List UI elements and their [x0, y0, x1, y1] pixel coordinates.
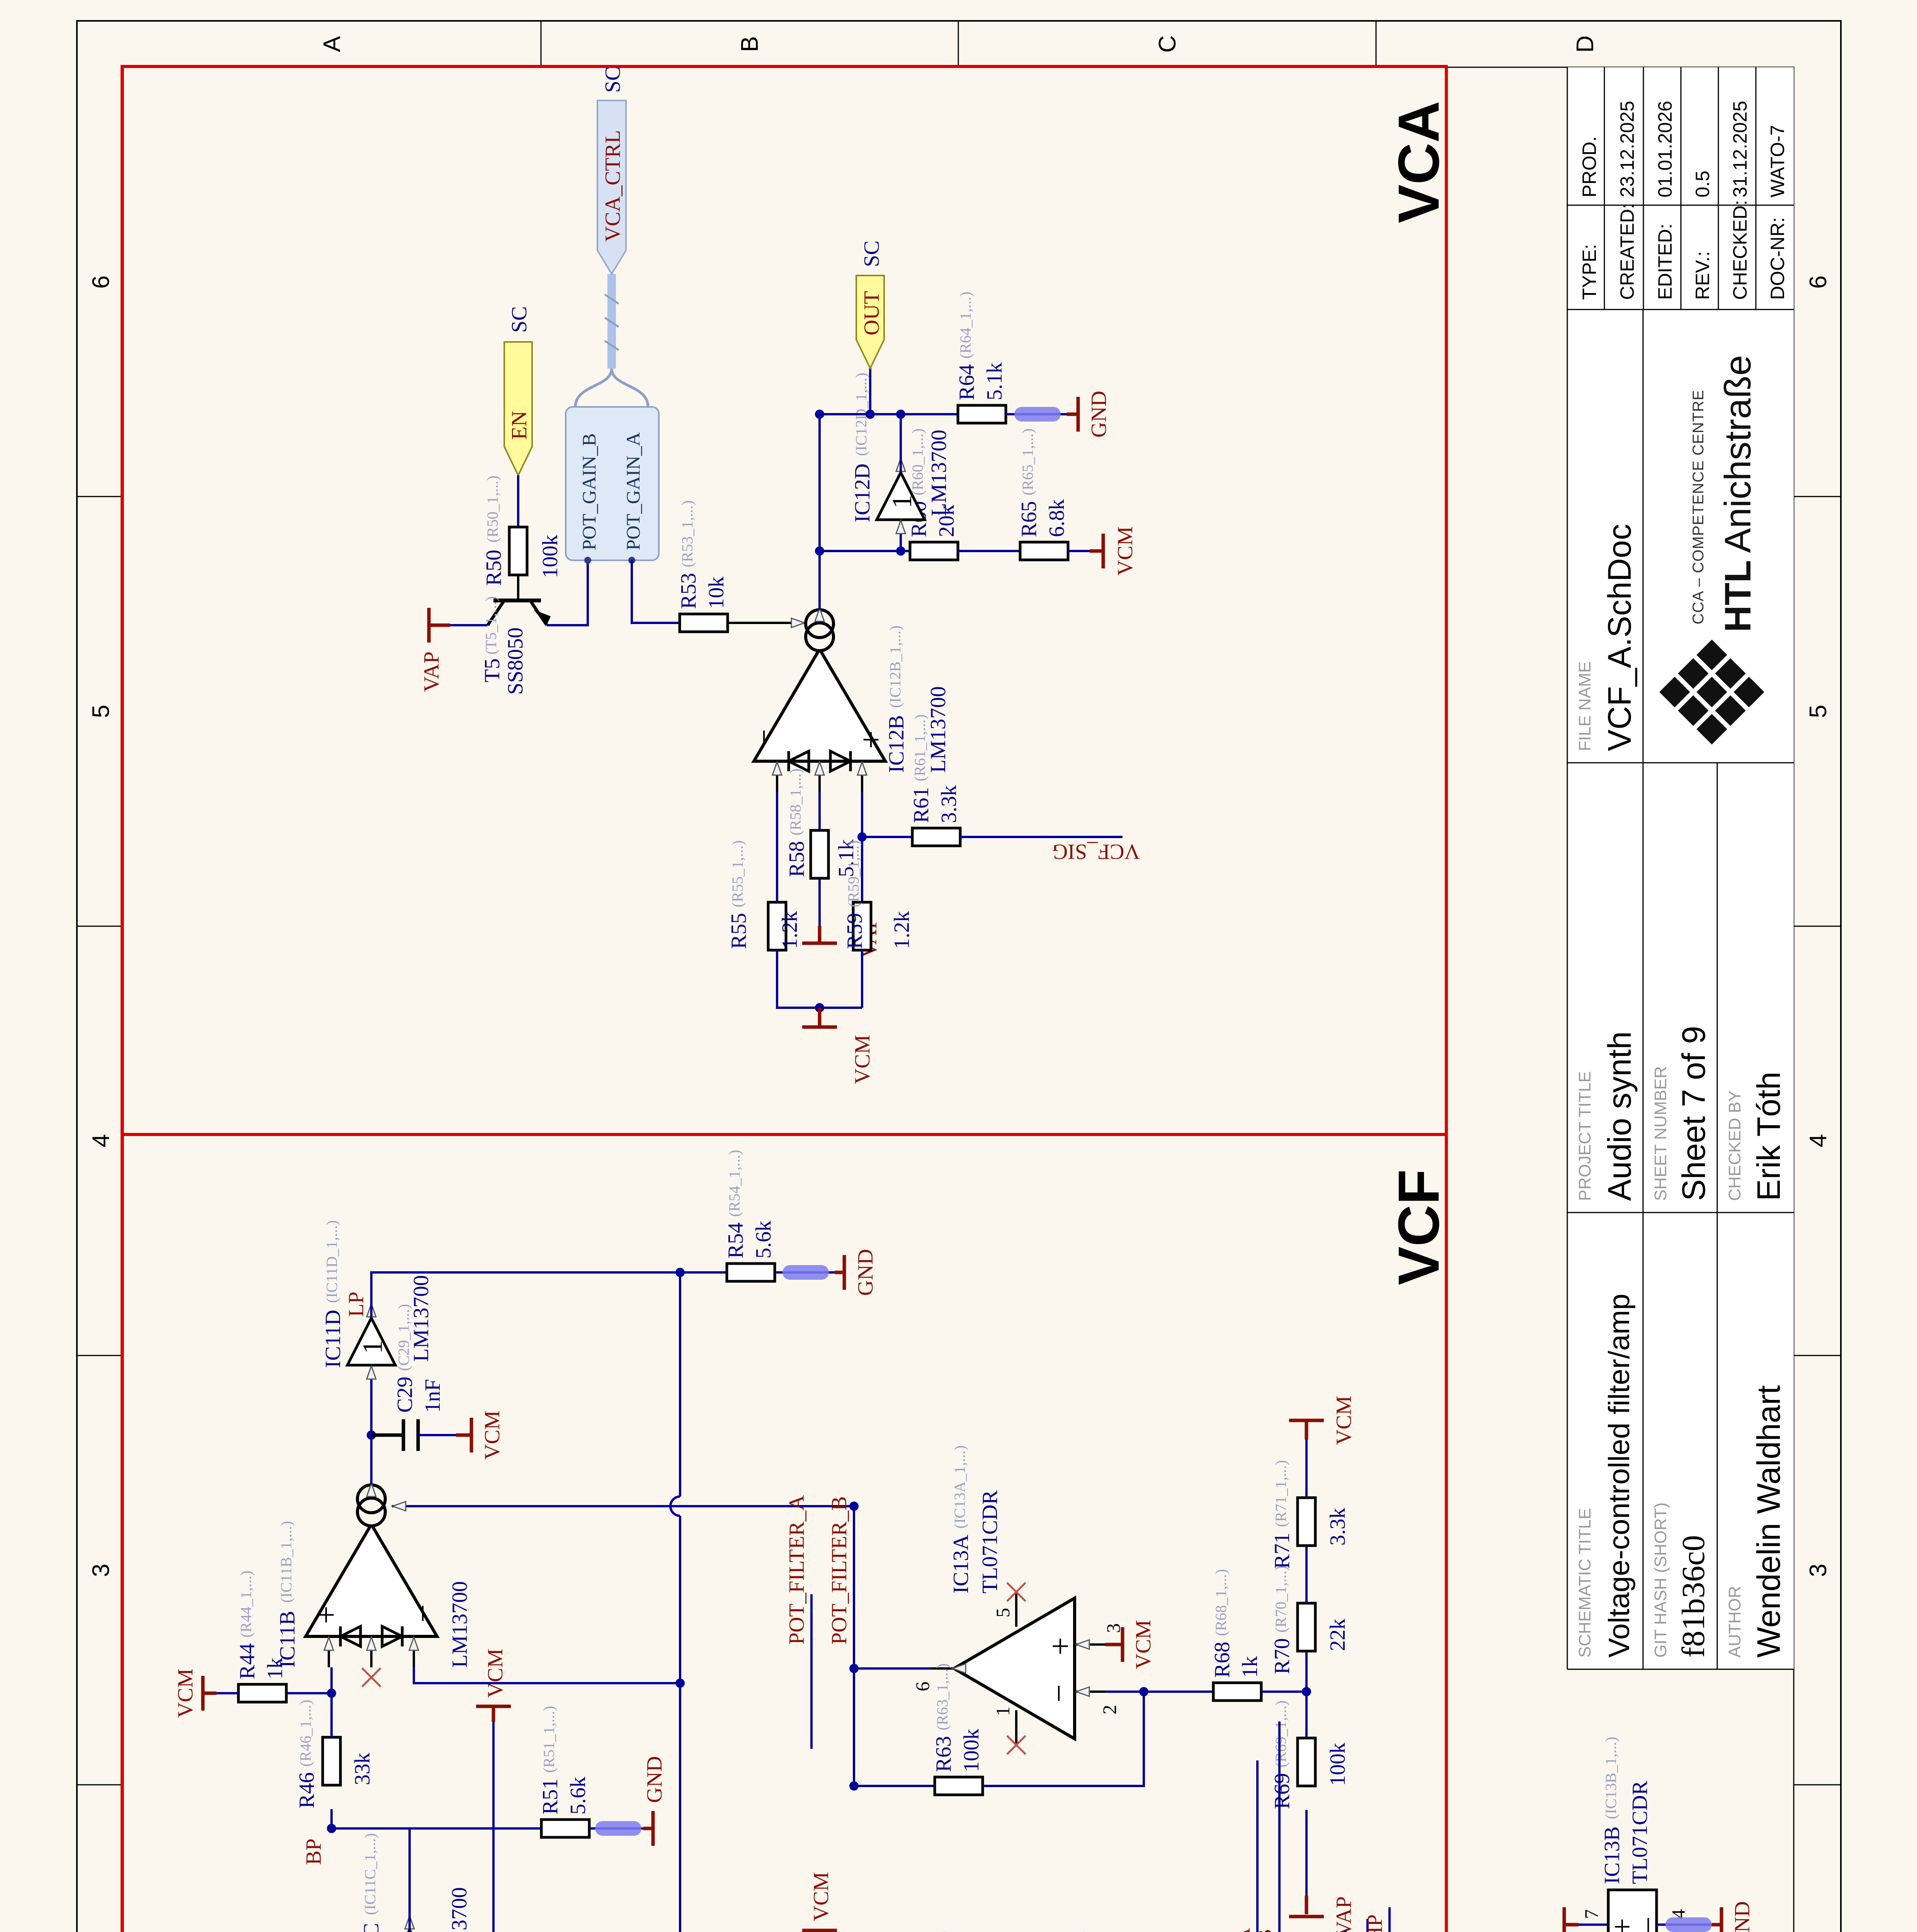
resistor R63 — [935, 1777, 983, 1795]
svg-text:GND: GND — [854, 1249, 878, 1296]
svg-text:CCA – COMPETENCE CENTRE: CCA – COMPETENCE CENTRE — [1690, 389, 1707, 624]
power VAP (IC13B) — [1564, 1907, 1579, 1932]
svg-text:TL071CDR: TL071CDR — [1628, 1781, 1652, 1884]
svg-text:3.3k: 3.3k — [1326, 1508, 1350, 1546]
wire IC11B minus from feedback — [414, 1667, 680, 1683]
svg-text:R70: R70 — [1270, 1638, 1294, 1674]
svg-text:100k: 100k — [538, 535, 562, 578]
svg-text:HTL: HTL — [1717, 560, 1759, 632]
svg-text:DOC-NR:: DOC-NR: — [1767, 217, 1788, 300]
svg-text:C: C — [1154, 36, 1181, 53]
feedback bus LP — [679, 1272, 681, 1932]
svg-text:5: 5 — [1805, 705, 1832, 718]
svg-text:BP: BP — [302, 1838, 326, 1865]
svg-text:Anichstraße: Anichstraße — [1717, 355, 1759, 553]
svg-text:SC: SC — [507, 306, 531, 333]
svg-text:SS8050: SS8050 — [503, 628, 527, 695]
junction — [1302, 1687, 1311, 1696]
svg-text:4: 4 — [1805, 1134, 1832, 1147]
port OUT — [856, 276, 884, 368]
svg-text:+: + — [308, 1606, 344, 1624]
svg-text:IC11B: IC11B — [276, 1611, 299, 1668]
resistor R46 — [323, 1737, 340, 1785]
svg-text:VCF: VCF — [1386, 1169, 1451, 1285]
resistor R59 — [853, 902, 871, 950]
svg-text:5.6k: 5.6k — [752, 1221, 776, 1259]
wire output to POT_FILTER_B net — [854, 1667, 931, 1670]
harness entry POT_GAIN_B — [584, 557, 591, 564]
wire POT_FILTER_B entry — [1278, 1721, 1281, 1932]
wire R46 to node — [330, 1667, 333, 1737]
pin 5 stub with no-ERC — [1015, 1592, 1017, 1627]
svg-text:(R61_1,...): (R61_1,...) — [911, 714, 929, 781]
junction — [815, 410, 824, 419]
pin 6 output — [931, 1667, 954, 1670]
svg-text:(R59_1,...): (R59_1,...) — [845, 840, 862, 907]
svg-text:(R69_1,...): (R69_1,...) — [1272, 1701, 1289, 1767]
compile mask pill (R51-GND) — [595, 1821, 641, 1836]
svg-text:Sheet 7 of 9: Sheet 7 of 9 — [1675, 1026, 1712, 1201]
junction — [675, 1268, 685, 1277]
junction — [327, 1689, 336, 1698]
resistor R58 — [811, 830, 828, 878]
svg-text:(R53_1,...): (R53_1,...) — [679, 500, 696, 567]
wire IC12B plus input — [861, 792, 863, 901]
power VCM (R65) — [1090, 534, 1103, 568]
junction — [675, 1679, 685, 1688]
svg-text:(IC11B_1,...): (IC11B_1,...) — [277, 1521, 295, 1603]
wire to R63 — [854, 1785, 935, 1787]
wire POT_FILTER_A entry — [1256, 1760, 1259, 1932]
wire R49 to VCM — [492, 1722, 495, 1932]
svg-text:Erik Tóth: Erik Tóth — [1750, 1071, 1787, 1201]
svg-text:−: − — [1041, 1684, 1077, 1702]
buffer IC12D — [877, 473, 925, 520]
power GND (R54) — [835, 1255, 844, 1290]
resistor R69 — [1298, 1738, 1315, 1786]
resistor R68 — [1213, 1683, 1261, 1701]
svg-text:1: 1 — [886, 495, 917, 509]
resistor R70 — [1298, 1603, 1315, 1651]
wire EN to R50 — [517, 475, 519, 527]
svg-text:EN: EN — [507, 411, 531, 440]
wire node to R44 — [285, 1692, 332, 1694]
harness port VCA_CTRL — [597, 100, 626, 274]
svg-text:33k: 33k — [350, 1753, 374, 1785]
svg-text:T5: T5 — [480, 658, 504, 682]
no-ERC cross (IC11B bias pin) — [362, 1668, 381, 1687]
svg-text:GIT HASH (SHORT): GIT HASH (SHORT) — [1651, 1502, 1670, 1658]
red section box VCF — [122, 1134, 1446, 1932]
wire R65 to VCM — [1068, 550, 1090, 552]
wire IC11B output — [370, 1373, 373, 1484]
compile mask pill (R54-GND) — [782, 1265, 829, 1280]
resistor R60 — [910, 542, 958, 560]
svg-text:−: − — [405, 1604, 441, 1622]
svg-text:VCM: VCM — [809, 1872, 833, 1921]
resistor R54 — [727, 1264, 775, 1281]
resistor R55 — [768, 902, 786, 950]
wire R64 to GND — [1006, 413, 1076, 415]
pin 3 stub — [1075, 1643, 1106, 1646]
junction — [849, 1664, 859, 1673]
harness cable VCA_CTRL — [607, 274, 616, 369]
svg-text:POT_GAIN_B: POT_GAIN_B — [578, 433, 600, 550]
power VCM (chain) — [1289, 1420, 1324, 1440]
svg-text:VAP: VAP — [1332, 1896, 1356, 1932]
svg-text:01.01.2026: 01.01.2026 — [1654, 101, 1676, 197]
wire R61 to VCF_SIG — [960, 836, 1123, 838]
resistor R53 — [680, 614, 728, 632]
svg-text:5: 5 — [88, 705, 114, 718]
svg-text:LM13700: LM13700 — [447, 1887, 471, 1932]
svg-text:1k: 1k — [1238, 1656, 1262, 1678]
wire SIG_SEL_P10 entry — [1388, 1907, 1391, 1932]
svg-text:LM13700: LM13700 — [409, 1275, 433, 1362]
svg-text:IC13B: IC13B — [1600, 1827, 1624, 1884]
wire R68 to chain — [1261, 1690, 1306, 1693]
svg-text:VAP: VAP — [420, 651, 444, 692]
svg-text:AUTHOR: AUTHOR — [1725, 1586, 1744, 1658]
junction — [815, 1003, 824, 1012]
wire SIG_SEL_P7 entry — [1366, 1919, 1369, 1932]
power VCM (R44) — [203, 1676, 216, 1711]
svg-text:3: 3 — [88, 1564, 114, 1577]
svg-text:(R63_1,...): (R63_1,...) — [934, 1663, 951, 1730]
power VCM (IC12B inputs) — [802, 1008, 837, 1027]
svg-text:R71: R71 — [1270, 1533, 1294, 1569]
wire POT_GAIN_A to R53 — [632, 560, 680, 623]
svg-text:Wendelin Waldhart: Wendelin Waldhart — [1750, 1385, 1787, 1658]
junction — [896, 410, 905, 419]
svg-text:4: 4 — [88, 1134, 114, 1147]
svg-text:CHECKED BY: CHECKED BY — [1725, 1090, 1744, 1201]
svg-text:(R44_1,...): (R44_1,...) — [237, 1571, 255, 1638]
svg-text:−: − — [746, 729, 782, 747]
bias wire IC11B — [392, 1505, 854, 1507]
logo diamonds — [1659, 639, 1764, 745]
svg-text:POT_FILTER_B: POT_FILTER_B — [1253, 1929, 1277, 1932]
junction — [866, 410, 875, 419]
svg-text:1: 1 — [992, 1706, 1014, 1716]
junction — [896, 546, 905, 556]
svg-text:EDITED:: EDITED: — [1654, 224, 1676, 300]
svg-text:2: 2 — [1099, 1705, 1120, 1714]
power VCM (pin3) — [1106, 1627, 1123, 1662]
svg-text:1nF: 1nF — [421, 1379, 445, 1413]
svg-text:R64: R64 — [955, 364, 979, 400]
resistor R51 — [541, 1820, 589, 1837]
resistor R44 — [238, 1684, 286, 1702]
power VCM (R57) — [802, 1930, 837, 1932]
svg-text:(R60_1,...): (R60_1,...) — [909, 429, 926, 495]
junction — [1139, 1687, 1148, 1696]
wire SIG_SEL_P4 entry — [1344, 1930, 1347, 1932]
wire R51 to GND — [589, 1827, 653, 1830]
wire T5 emitter to POT_GAIN_B — [547, 560, 588, 625]
title block — [1567, 67, 1794, 1669]
wire to R61 — [862, 836, 912, 838]
svg-text:SCHEMATIC TITLE: SCHEMATIC TITLE — [1575, 1508, 1594, 1658]
svg-text:POT_FILTER_B: POT_FILTER_B — [827, 1496, 851, 1645]
svg-text:SC: SC — [860, 241, 884, 267]
wire pin2 to node — [1106, 1690, 1213, 1693]
junction — [367, 1430, 376, 1440]
svg-text:R69: R69 — [1270, 1773, 1294, 1809]
power VCM (bus) — [476, 1706, 511, 1722]
svg-text:GND: GND — [643, 1756, 667, 1803]
svg-text:R44: R44 — [235, 1643, 259, 1679]
svg-text:CREATED:: CREATED: — [1616, 204, 1638, 300]
svg-text:(IC11C_1,...): (IC11C_1,...) — [361, 1833, 379, 1915]
resistor R71 — [1298, 1498, 1315, 1546]
svg-text:IC13A: IC13A — [949, 1534, 973, 1594]
harness box POT_GAIN — [566, 407, 659, 560]
svg-text:A: A — [319, 36, 345, 52]
svg-text:WATO-7: WATO-7 — [1767, 125, 1788, 197]
svg-text:TL071CDR: TL071CDR — [978, 1490, 1002, 1594]
svg-text:OUT: OUT — [860, 291, 884, 335]
compile mask pill (R64-GND) — [1014, 407, 1061, 422]
power GND (R51) — [643, 1811, 653, 1846]
svg-text:(R71_1,...): (R71_1,...) — [1272, 1460, 1289, 1527]
svg-text:VCA: VCA — [1386, 101, 1451, 223]
wire R53 to IC12B bias — [728, 622, 793, 624]
svg-text:Voltage-controlled filter/amp: Voltage-controlled filter/amp — [1603, 1294, 1636, 1658]
svg-text:FILE NAME: FILE NAME — [1575, 662, 1594, 751]
svg-text:+: + — [853, 731, 889, 749]
power GND (R64) — [1067, 397, 1078, 432]
wire R54 to GND — [775, 1271, 844, 1274]
junction — [849, 1781, 859, 1791]
svg-text:(R46_1,...): (R46_1,...) — [297, 1700, 314, 1767]
svg-text:6: 6 — [1805, 276, 1832, 289]
svg-text:SHEET NUMBER: SHEET NUMBER — [1651, 1066, 1670, 1201]
svg-text:5.6k: 5.6k — [566, 1777, 590, 1815]
svg-text:VCM: VCM — [483, 1648, 507, 1698]
svg-text:(R64_1,...): (R64_1,...) — [957, 292, 974, 359]
svg-text:B: B — [737, 36, 763, 52]
svg-text:R59: R59 — [843, 913, 867, 949]
wire R51 from BP — [332, 1827, 541, 1830]
svg-text:6: 6 — [912, 1682, 933, 1691]
svg-text:R68: R68 — [1210, 1642, 1234, 1678]
red section box VCA — [122, 66, 1446, 1134]
svg-text:100k: 100k — [1326, 1743, 1350, 1786]
svg-text:(IC12B_1,...): (IC12B_1,...) — [886, 626, 904, 708]
wire R60 to R65 — [958, 550, 1020, 552]
wire to buffer input and R60 — [820, 520, 901, 551]
svg-text:IC12D: IC12D — [850, 464, 874, 522]
wire IC12B minus input — [776, 792, 778, 901]
svg-text:HP: HP — [1363, 1914, 1387, 1932]
wire POT_FILTER_B — [853, 1506, 855, 1786]
op-amp IC12B (OTA LM13700) — [754, 608, 885, 792]
svg-text:(IC11D_1,...): (IC11D_1,...) — [323, 1220, 340, 1303]
svg-text:1.2k: 1.2k — [890, 911, 914, 949]
wire R50 to T5 base — [517, 575, 519, 600]
resistor R65 — [1020, 542, 1068, 560]
svg-text:R51: R51 — [538, 1779, 562, 1815]
buffer IC11C — [386, 1930, 434, 1932]
svg-text:C29: C29 — [393, 1377, 417, 1413]
svg-text:IC12B: IC12B — [885, 715, 908, 773]
capacitor C29 — [371, 1419, 418, 1451]
harness brace — [575, 369, 648, 407]
op-amp IC11B (OTA LM13700) — [306, 1483, 437, 1667]
svg-text:(R65_1,...): (R65_1,...) — [1019, 429, 1036, 495]
junction — [815, 546, 824, 556]
wire R69 to R70 — [1305, 1651, 1308, 1738]
svg-text:VCA_CTRL: VCA_CTRL — [601, 130, 625, 242]
svg-text:LM13700: LM13700 — [926, 686, 950, 773]
svg-text:(R50_1,...): (R50_1,...) — [484, 476, 501, 543]
svg-text:R50: R50 — [482, 550, 506, 586]
wire VAP to R69 — [1305, 1810, 1308, 1896]
svg-text:VCM: VCM — [1113, 526, 1137, 576]
svg-text:1: 1 — [357, 1340, 388, 1354]
svg-text:3.3k: 3.3k — [937, 785, 961, 823]
svg-text:VCM: VCM — [1131, 1620, 1155, 1669]
resistor R50 — [509, 527, 527, 575]
wire R63 to minus node — [983, 1692, 1144, 1786]
svg-text:3: 3 — [1805, 1564, 1832, 1577]
svg-text:R58: R58 — [785, 841, 809, 877]
wire R58 to VAP — [818, 878, 821, 926]
svg-text:LP: LP — [344, 1292, 368, 1317]
compile mask pill (IC13B-GND) — [1665, 1917, 1712, 1932]
svg-text:REV.:: REV.: — [1692, 251, 1713, 300]
power VCM (C29) — [456, 1418, 471, 1452]
svg-text:POT_FILTER_A: POT_FILTER_A — [1231, 1928, 1255, 1932]
svg-text:(IC13B_1,...): (IC13B_1,...) — [1602, 1737, 1619, 1819]
wire IC12B center pin to R58 — [818, 792, 821, 830]
svg-text:R55: R55 — [727, 913, 751, 949]
svg-text:TYPE:: TYPE: — [1579, 244, 1600, 300]
wire to VAP — [1579, 1923, 1608, 1926]
junction BP — [327, 1824, 336, 1833]
svg-text:100k: 100k — [959, 1729, 983, 1772]
svg-text:VCF_SIG: VCF_SIG — [1052, 840, 1140, 864]
pin 2 stub — [1075, 1690, 1106, 1693]
svg-text:R61: R61 — [909, 787, 933, 823]
svg-text:(R70_1,...): (R70_1,...) — [1272, 1566, 1289, 1633]
svg-text:+: + — [1043, 1637, 1078, 1655]
wire T5 collector to VAP — [450, 624, 488, 626]
svg-text:1.2k: 1.2k — [778, 911, 802, 949]
junction — [849, 1502, 859, 1511]
power VAP (T5) — [429, 608, 450, 643]
wire POT_FILTER_A — [810, 1594, 813, 1749]
svg-text:LM13700: LM13700 — [448, 1581, 472, 1668]
svg-text:f81b36c0: f81b36c0 — [1675, 1535, 1711, 1658]
svg-text:(R55_1,...): (R55_1,...) — [729, 840, 746, 907]
svg-text:IC11C: IC11C — [359, 1923, 383, 1932]
wire buffer out to BP — [332, 1828, 410, 1930]
wire R70 to R71 — [1305, 1546, 1308, 1603]
svg-text:GND: GND — [1087, 391, 1111, 437]
wire hop — [670, 1497, 680, 1516]
svg-text:CHECKED:: CHECKED: — [1729, 200, 1751, 300]
svg-text:GND: GND — [1730, 1901, 1754, 1932]
op-amp IC13B power part — [1608, 1890, 1657, 1932]
svg-text:(R68_1,...): (R68_1,...) — [1212, 1569, 1230, 1636]
wire down to R60 — [901, 550, 910, 552]
svg-text:(R51_1,...): (R51_1,...) — [540, 1706, 558, 1773]
svg-text:POT_FILTER_A: POT_FILTER_A — [785, 1495, 809, 1645]
svg-text:23.12.2025: 23.12.2025 — [1616, 101, 1638, 197]
svg-text:VCM: VCM — [1332, 1396, 1356, 1445]
svg-text:R63: R63 — [932, 1736, 956, 1772]
wire IC12B output — [818, 414, 821, 610]
svg-text:5: 5 — [992, 1608, 1014, 1617]
svg-text:(R58_1,...): (R58_1,...) — [787, 769, 804, 835]
svg-text:LM13700: LM13700 — [927, 430, 951, 516]
svg-text:R54: R54 — [724, 1223, 748, 1259]
svg-text:IC11D: IC11D — [321, 1310, 345, 1368]
svg-text:R46: R46 — [295, 1772, 319, 1808]
svg-text:0.5: 0.5 — [1692, 170, 1713, 197]
wire R55 to VCM bus — [777, 950, 862, 1008]
wire output node vertical — [820, 413, 958, 415]
svg-text:R65: R65 — [1017, 501, 1041, 537]
svg-text:VCM: VCM — [173, 1668, 197, 1718]
port EN — [504, 342, 532, 475]
wire to OUT port — [869, 368, 871, 414]
svg-text:D: D — [1572, 36, 1599, 53]
svg-text:VCM: VCM — [480, 1410, 504, 1460]
wire R71 to VCM — [1305, 1440, 1308, 1498]
power GND (IC13B) — [1712, 1907, 1721, 1932]
svg-text:POT_GAIN_A: POT_GAIN_A — [622, 432, 644, 550]
op-amp IC13A TL071CDR — [954, 1598, 1075, 1739]
svg-text:SC: SC — [601, 66, 625, 93]
svg-text:VCM: VCM — [850, 1035, 874, 1084]
transistor T5 — [488, 600, 547, 625]
svg-text:Audio synth: Audio synth — [1601, 1031, 1638, 1201]
wire LP output — [371, 1272, 727, 1318]
svg-text:6: 6 — [88, 276, 114, 289]
svg-text:VCF_A.SchDoc: VCF_A.SchDoc — [1601, 524, 1638, 751]
wire R44 to VCM — [216, 1692, 238, 1694]
svg-text:PROD.: PROD. — [1579, 136, 1600, 197]
svg-text:10k: 10k — [704, 577, 728, 609]
svg-text:7: 7 — [1580, 1909, 1602, 1919]
pin 1 stub with no-ERC — [1015, 1710, 1017, 1745]
wire buffer out — [900, 414, 902, 473]
svg-text:(R54_1,...): (R54_1,...) — [726, 1150, 743, 1217]
resistor R64 — [958, 405, 1006, 423]
svg-text:R53: R53 — [677, 573, 701, 609]
wire to GND — [1657, 1923, 1721, 1926]
svg-text:31.12.2025: 31.12.2025 — [1729, 101, 1751, 197]
wire BP to R46 — [330, 1809, 333, 1828]
harness entry POT_GAIN_A — [628, 557, 635, 564]
svg-text:(IC13A_1,...): (IC13A_1,...) — [951, 1445, 968, 1529]
power VAP (chain) — [1289, 1896, 1324, 1917]
svg-text:5.1k: 5.1k — [983, 362, 1007, 400]
buffer IC11D — [347, 1318, 395, 1365]
power VAP (R58) — [802, 926, 837, 943]
svg-text:PROJECT TITLE: PROJECT TITLE — [1575, 1071, 1594, 1201]
svg-text:6.8k: 6.8k — [1045, 499, 1069, 537]
svg-text:22k: 22k — [1326, 1619, 1350, 1651]
resistor R61 — [912, 828, 960, 846]
junction — [857, 832, 867, 842]
wire R59 to VCM bus — [861, 950, 863, 1008]
